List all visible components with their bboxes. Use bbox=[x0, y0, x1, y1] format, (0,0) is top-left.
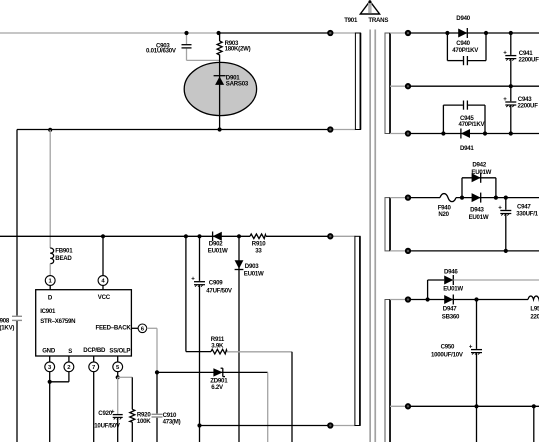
svg-text:D903: D903 bbox=[245, 263, 259, 270]
svg-text:C920: C920 bbox=[98, 410, 112, 417]
svg-text:FB901: FB901 bbox=[55, 248, 73, 255]
wire: secondary row y=86.2 bbox=[390, 85, 408, 87]
wire: left vertical x=17 (lower) bbox=[16, 321, 18, 442]
transformer aux winding bbox=[355, 236, 360, 425]
wire: VCC drop from aux rail bbox=[102, 236, 104, 275]
node: junction C950 top bbox=[474, 297, 478, 301]
svg-text:L950: L950 bbox=[530, 305, 539, 312]
node: junction right drop bbox=[532, 404, 536, 408]
wire: pin2 to pin3 gnd link bbox=[68, 372, 70, 382]
node: pin dot primary bottom bbox=[328, 127, 332, 131]
wire: top primary rail stub to winding bbox=[330, 32, 355, 34]
wire: primary bottom rail y=129.5 bbox=[17, 129, 330, 131]
svg-text:33: 33 bbox=[255, 247, 262, 254]
diode D947 SB360 bbox=[442, 295, 460, 321]
node: junction C940 right bbox=[484, 31, 488, 35]
wire: top primary rail y=33 (gray left part) bbox=[0, 32, 219, 34]
diode D943 EU01W bbox=[469, 193, 489, 221]
wire: pin5 down to node bbox=[117, 372, 119, 378]
svg-text:TRANS: TRANS bbox=[368, 17, 388, 24]
node: junction aux bottom left bbox=[197, 423, 201, 427]
svg-text:473(M): 473(M) bbox=[163, 418, 181, 425]
node: junction C947 top bbox=[504, 196, 508, 200]
diode D946 EU01W (branch) bbox=[428, 268, 539, 299]
node: junction VCC tap bbox=[101, 234, 105, 238]
node: pin dot primary top bbox=[328, 31, 332, 35]
svg-text:EU01W: EU01W bbox=[471, 169, 491, 176]
svg-text:0.01U/630V: 0.01U/630V bbox=[146, 48, 177, 55]
svg-text:220: 220 bbox=[530, 313, 539, 320]
node: junction zener row bbox=[155, 370, 159, 374]
svg-text:T901: T901 bbox=[344, 17, 358, 24]
capacitor C908 (1KV) bbox=[0, 316, 22, 331]
svg-text:IC901: IC901 bbox=[40, 308, 56, 315]
wire: aux rail stub to winding bbox=[330, 235, 355, 237]
wire: pin6 feedback to zener row bbox=[147, 327, 157, 329]
diode D901 SARS03 bbox=[214, 74, 249, 87]
pin 1 bbox=[45, 276, 55, 290]
wire: stub to primary winding bottom bbox=[330, 129, 355, 131]
node: junction D942 left bbox=[460, 196, 464, 200]
svg-text:D947: D947 bbox=[443, 305, 457, 312]
node: junction x=186 bbox=[184, 234, 188, 238]
capacitor C941 2200UF bbox=[503, 33, 539, 86]
diode D903 EU01W bbox=[235, 260, 264, 277]
node: junction R903 top bbox=[217, 31, 221, 35]
node: pin dot sec row4 bbox=[406, 195, 410, 199]
svg-text:R910: R910 bbox=[252, 240, 266, 247]
node: junction D901 bottom bbox=[218, 127, 222, 131]
svg-text:D942: D942 bbox=[472, 162, 486, 169]
wire: secondary row y=133.5 bbox=[390, 133, 408, 135]
diode D940 bbox=[456, 15, 470, 38]
wire: D903 branch down x=239 bbox=[238, 236, 240, 442]
capacitor C947 330UF bbox=[498, 198, 538, 251]
svg-text:DCP/BD: DCP/BD bbox=[83, 347, 106, 354]
node: pin dot sec row1 bbox=[406, 31, 410, 35]
pin 5 bbox=[113, 356, 123, 372]
wire: secondary row y=33 bbox=[390, 32, 408, 34]
svg-text:EU01W: EU01W bbox=[469, 214, 489, 221]
fuse F940 N20 bbox=[438, 194, 456, 219]
node: junction C945 right bbox=[483, 131, 487, 135]
capacitor C943 2200UF bbox=[503, 86, 538, 133]
svg-text:EU01W: EU01W bbox=[443, 286, 463, 293]
node: junction gnd link bbox=[48, 380, 52, 384]
node: junction D942 right bbox=[494, 196, 498, 200]
node: pin dot sec row7 bbox=[406, 404, 410, 408]
svg-text:D941: D941 bbox=[460, 145, 474, 152]
capacitor C910 473(M) bbox=[152, 372, 181, 442]
svg-text:10UF/50V: 10UF/50V bbox=[94, 422, 121, 429]
svg-text:330UF/1: 330UF/1 bbox=[516, 211, 538, 218]
node: junction FB901 top bbox=[48, 128, 52, 132]
svg-text:6.2V: 6.2V bbox=[211, 384, 224, 391]
svg-text:SB360: SB360 bbox=[442, 313, 460, 320]
node: junction C940 left bbox=[445, 31, 449, 35]
svg-text:47UF/50V: 47UF/50V bbox=[206, 288, 233, 295]
svg-text:C940: C940 bbox=[456, 40, 470, 47]
node: junction C941 top bbox=[509, 31, 513, 35]
wire: pin7 down bbox=[93, 372, 95, 442]
wire: FB901 to pin1 bbox=[49, 264, 51, 276]
capacitor C920 bbox=[94, 377, 122, 442]
wire: pin5 branch to R920 bbox=[118, 376, 133, 378]
wire: aux bottom rail y=425.5 bbox=[200, 425, 331, 427]
transformer secondary winding 1 bbox=[385, 33, 390, 134]
transformer secondary winding 3 bbox=[385, 300, 390, 442]
node: junction C903 top bbox=[184, 31, 188, 35]
svg-text:D943: D943 bbox=[470, 206, 484, 213]
transformer secondary winding 2 bbox=[385, 198, 390, 251]
svg-text:1000UF/10V: 1000UF/10V bbox=[431, 352, 464, 359]
pin 4 bbox=[98, 276, 108, 290]
wire: pin3 down bbox=[49, 372, 51, 442]
resistor R903 bbox=[217, 33, 250, 57]
transformer T901 core triangle bbox=[344, 0, 388, 24]
svg-text:N20: N20 bbox=[438, 211, 449, 218]
wire: gray drop to FB901 bbox=[49, 130, 51, 248]
inductor L950 bbox=[528, 296, 539, 320]
svg-text:SARS03: SARS03 bbox=[226, 81, 249, 88]
resistor R911 3.9K bbox=[186, 336, 292, 354]
svg-text:(1KV): (1KV) bbox=[0, 324, 14, 331]
svg-text:470P/1KV: 470P/1KV bbox=[459, 121, 486, 128]
svg-text:C947: C947 bbox=[517, 204, 531, 211]
svg-text:2200UF: 2200UF bbox=[518, 103, 539, 110]
node: junction C941/C943 bbox=[509, 84, 513, 88]
svg-text:470P/1KV: 470P/1KV bbox=[452, 47, 479, 54]
node: pin dot aux top bbox=[328, 234, 332, 238]
resistor R920 bbox=[130, 377, 152, 442]
pin 7 bbox=[89, 356, 99, 372]
wire: secondary row y=250.9 bbox=[390, 250, 408, 252]
svg-text:VCC: VCC bbox=[98, 294, 111, 301]
wire: zener row y=372.4 bbox=[157, 371, 268, 373]
transformer primary winding bbox=[355, 33, 360, 130]
node: junction x=199.5 bbox=[197, 234, 201, 238]
svg-text:100K: 100K bbox=[137, 418, 151, 425]
wire: secondary row y=299.5 bbox=[390, 299, 408, 301]
pin 2 bbox=[64, 356, 74, 372]
op-amp IC901 STR-X6759N box bbox=[36, 290, 132, 356]
svg-text:D940: D940 bbox=[456, 15, 470, 22]
svg-text:BEAD: BEAD bbox=[55, 255, 72, 262]
node: junction D946 riser bbox=[426, 297, 430, 301]
transformer core lines bbox=[369, 30, 371, 442]
wire: zener row corner down x=267.7 bbox=[267, 372, 269, 442]
svg-text:D902: D902 bbox=[209, 240, 223, 247]
wire: top primary rail y=33 (black mid part) bbox=[219, 32, 331, 34]
node: pin dot sec row2 bbox=[406, 84, 410, 88]
svg-text:C950: C950 bbox=[441, 344, 455, 351]
wire: C909 branch down x=199.5 bbox=[199, 236, 201, 281]
diode D902 EU01W bbox=[208, 232, 228, 255]
resistor R910 bbox=[250, 234, 266, 254]
wire: left vertical x=17 (upper) bbox=[16, 130, 18, 316]
node: junction C945 left bbox=[441, 131, 445, 135]
wire: aux rail y=236.3 bbox=[0, 235, 250, 237]
ellipse highlight around D901 bbox=[184, 62, 256, 115]
capacitor C909 bbox=[191, 276, 233, 295]
node: junction C943 bottom bbox=[509, 131, 513, 135]
svg-text:2200UF: 2200UF bbox=[519, 56, 539, 63]
diode D941 bbox=[460, 129, 474, 153]
svg-text:EU01W: EU01W bbox=[208, 247, 228, 254]
pin 6 bbox=[131, 324, 146, 333]
zener ZD901 6.2V bbox=[210, 368, 228, 391]
svg-text:D946: D946 bbox=[444, 268, 458, 275]
svg-text:C908: C908 bbox=[0, 317, 10, 324]
node: junction pin5 bbox=[116, 375, 120, 379]
node: junction C950 bottom bbox=[474, 404, 478, 408]
wire: R903 to bottom rail through D901 bbox=[219, 57, 221, 130]
diode D942 EU01W (parallel branch) bbox=[462, 162, 496, 198]
svg-text:C909: C909 bbox=[209, 279, 223, 286]
wire: R911 output down x=292 bbox=[291, 352, 293, 442]
svg-text:STR–X6759N: STR–X6759N bbox=[40, 318, 75, 325]
inductor FB901 BEAD bbox=[50, 248, 73, 264]
node: junction C947 bottom bbox=[504, 249, 508, 253]
svg-text:3.9K: 3.9K bbox=[211, 342, 224, 349]
node: pin dot sec row3 bbox=[406, 131, 410, 135]
node: pin dot sec row6 bbox=[406, 297, 410, 301]
svg-text:EU01W: EU01W bbox=[244, 270, 264, 277]
svg-text:FEED–BACK: FEED–BACK bbox=[96, 325, 132, 332]
wire: secondary row y=197.6 bbox=[390, 197, 408, 199]
wire: feedback branch x=186 down bbox=[185, 236, 187, 351]
svg-text:S: S bbox=[68, 348, 72, 355]
pin 3 bbox=[45, 356, 55, 372]
node: pin dot sec row5 bbox=[406, 249, 410, 253]
svg-text:SS/OLP: SS/OLP bbox=[109, 348, 130, 355]
capacitor C903 bbox=[146, 33, 220, 60]
capacitor C945 470P/1KV bbox=[443, 101, 485, 134]
capacitor C950 1000UF/10V bbox=[431, 300, 482, 442]
node: pin dot aux bottom bbox=[328, 423, 332, 427]
svg-text:GND: GND bbox=[42, 348, 56, 355]
node: junction x=239 bbox=[237, 234, 241, 238]
wire: right drop x=533.8 bbox=[533, 406, 535, 442]
svg-text:180K(2W): 180K(2W) bbox=[225, 45, 251, 52]
capacitor C940 470P/1KV bbox=[447, 33, 486, 65]
wire: secondary row y=406.3 bbox=[390, 405, 408, 407]
